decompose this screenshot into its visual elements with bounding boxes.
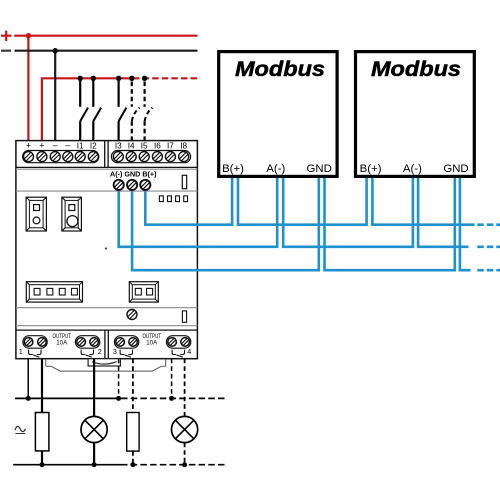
svg-text:I8: I8 bbox=[180, 142, 187, 151]
svg-text:2: 2 bbox=[98, 347, 102, 356]
svg-text:I4: I4 bbox=[128, 142, 135, 151]
svg-text:B(+): B(+) bbox=[222, 163, 244, 175]
svg-text:–: – bbox=[53, 140, 58, 150]
svg-text:B(+): B(+) bbox=[360, 163, 382, 175]
svg-text:A(-) GND B(+): A(-) GND B(+) bbox=[110, 169, 157, 178]
svg-text:I1: I1 bbox=[77, 142, 84, 151]
svg-text:10A: 10A bbox=[146, 340, 158, 347]
svg-text:A(-): A(-) bbox=[403, 163, 422, 175]
svg-text:I6: I6 bbox=[154, 142, 161, 151]
svg-text:3: 3 bbox=[113, 347, 117, 356]
svg-text:10A: 10A bbox=[56, 340, 68, 347]
svg-text:I3: I3 bbox=[115, 142, 122, 151]
svg-text:1: 1 bbox=[19, 347, 23, 356]
svg-text:+: + bbox=[39, 141, 44, 151]
svg-text:+: + bbox=[26, 141, 31, 151]
svg-text:–: – bbox=[65, 140, 70, 150]
svg-text:Modbus: Modbus bbox=[371, 57, 461, 81]
svg-text:I2: I2 bbox=[90, 142, 97, 151]
svg-text:A(-): A(-) bbox=[266, 163, 285, 175]
svg-text:I7: I7 bbox=[167, 142, 174, 151]
svg-text:Modbus: Modbus bbox=[235, 57, 325, 81]
svg-text:I5: I5 bbox=[141, 142, 148, 151]
svg-text:GND: GND bbox=[443, 163, 468, 175]
svg-text:GND: GND bbox=[307, 163, 332, 175]
svg-text:4: 4 bbox=[187, 347, 191, 356]
